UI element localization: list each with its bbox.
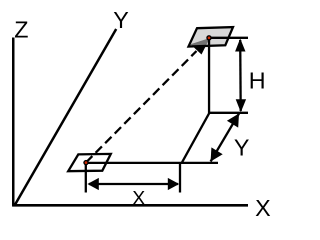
Z axis — [12, 38, 15, 206]
H arrowhead down — [236, 99, 246, 112]
lower platform fill — [68, 154, 111, 171]
svg-text:H: H — [249, 67, 266, 93]
svg-text:Z: Z — [14, 16, 28, 42]
X axis — [12, 204, 248, 207]
X dimension arrow shaft — [89, 183, 178, 185]
left extension tick — [85, 163, 87, 193]
X arrowhead right — [168, 178, 179, 190]
svg-text:X: X — [132, 187, 145, 209]
svg-text:Y: Y — [113, 7, 129, 33]
ground plane diagonal line — [182, 113, 210, 163]
upper platform fill — [189, 27, 234, 46]
Y arrowhead upper — [227, 114, 239, 128]
H arrowhead up — [235, 39, 245, 52]
upper red node — [206, 35, 211, 40]
upper platform outline — [189, 27, 234, 46]
vertical drop line from upper platform — [208, 38, 210, 113]
svg-text:X: X — [255, 195, 271, 221]
right extension tick — [179, 163, 181, 193]
Y dimension arrow shaft — [211, 114, 239, 162]
lower red node — [83, 160, 88, 165]
X arrowhead left — [87, 178, 98, 190]
H top reference line — [209, 37, 248, 39]
dashed line arrowhead — [191, 38, 210, 55]
Y axis — [14, 29, 116, 206]
ground plane horizontal line — [86, 162, 218, 164]
H dimension arrow shaft — [239, 40, 242, 111]
lower platform outline — [68, 154, 111, 171]
dashed trajectory line — [86, 51, 197, 163]
H bottom reference line — [208, 112, 248, 114]
svg-text:Y: Y — [234, 134, 250, 160]
Y arrowhead lower — [211, 147, 223, 161]
